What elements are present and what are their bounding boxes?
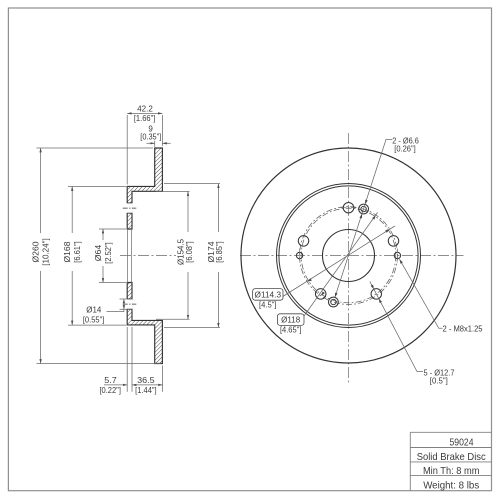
svg-text:[1.44"]: [1.44"] (135, 386, 157, 395)
dimensions 5.7 and 36.5 (99, 327, 162, 395)
leader 5-D12.7 (370, 281, 455, 385)
upper lug hole slot (123, 203, 137, 213)
svg-text:42.2: 42.2 (137, 105, 153, 114)
section upper half body (127, 148, 162, 229)
lug hole left 162deg (298, 236, 309, 247)
svg-text:[0.35"]: [0.35"] (140, 133, 161, 142)
leader D118 (277, 212, 377, 334)
svg-text:[0.5"]: [0.5"] (430, 377, 448, 386)
svg-text:[6.61"]: [6.61"] (73, 241, 82, 263)
svg-text:5.7: 5.7 (104, 376, 117, 385)
svg-text:[0.26"]: [0.26"] (394, 145, 416, 154)
circle D174 (277, 184, 421, 328)
horizontal centerline (240, 255, 464, 257)
svg-text:[0.55"]: [0.55"] (83, 315, 105, 324)
svg-text:[4.65"]: [4.65"] (280, 326, 302, 335)
lug hole right 18deg (388, 236, 399, 247)
dimension D168 (63, 186, 126, 325)
M8 hole left (296, 249, 302, 263)
svg-text:[6.85"]: [6.85"] (215, 241, 224, 263)
svg-text:Min Th: 8 mm: Min Th: 8 mm (423, 465, 480, 477)
M8 hole right (394, 249, 400, 263)
section centerline (120, 255, 176, 257)
svg-text:36.5: 36.5 (137, 376, 155, 385)
svg-text:[6.08"]: [6.08"] (185, 241, 194, 263)
svg-text:[10.24"]: [10.24"] (41, 238, 50, 266)
leader 2-D6.6 (335, 136, 419, 297)
center bore D64 (323, 230, 375, 282)
svg-text:Ø114.3: Ø114.3 (255, 290, 282, 299)
bolt circle D114.3 (301, 208, 396, 303)
svg-text:2 - M8x1.25: 2 - M8x1.25 (443, 324, 484, 333)
dimension D64 (94, 229, 126, 283)
svg-text:Ø118: Ø118 (281, 316, 301, 325)
bore edge lines (127, 229, 129, 283)
svg-text:[1.66"]: [1.66"] (134, 114, 156, 123)
lug hole top center mark (341, 207, 357, 209)
bolt circle D118 (300, 207, 398, 305)
svg-text:59024: 59024 (450, 437, 474, 449)
dimension D14 (83, 299, 127, 324)
lug hole lower right (371, 289, 382, 300)
dimension D174 (164, 184, 224, 328)
svg-text:Weight: 8 lbs: Weight: 8 lbs (423, 479, 479, 491)
D6.6 hole top (359, 204, 369, 214)
dimension 42.2 (127, 105, 162, 185)
dimension 9 (140, 124, 170, 147)
svg-text:Ø260: Ø260 (32, 241, 41, 263)
dimension D154.5 (156, 192, 194, 320)
vertical centerline (348, 133, 350, 384)
lower lug hole slot (123, 299, 137, 309)
svg-text:[4.5"]: [4.5"] (259, 300, 277, 309)
D6.6 hole bottom (329, 297, 339, 307)
title block table (410, 432, 491, 490)
svg-text:Ø14: Ø14 (86, 305, 102, 314)
svg-text:Solid Brake Disc: Solid Brake Disc (417, 451, 486, 463)
outer circle D260 (241, 148, 456, 363)
svg-text:[0.22"]: [0.22"] (99, 386, 121, 395)
lug hole top (343, 202, 354, 213)
dimension D260 (32, 148, 161, 364)
svg-text:Ø168: Ø168 (63, 241, 72, 263)
svg-text:Ø64: Ø64 (94, 244, 103, 261)
leader D114.3 (253, 226, 395, 309)
svg-text:[2.52"]: [2.52"] (104, 242, 113, 264)
leader 2-M8x1.25 (400, 259, 484, 333)
lug hole lower left (315, 289, 326, 300)
circle D168 (279, 186, 418, 325)
section lower half body (127, 283, 162, 364)
